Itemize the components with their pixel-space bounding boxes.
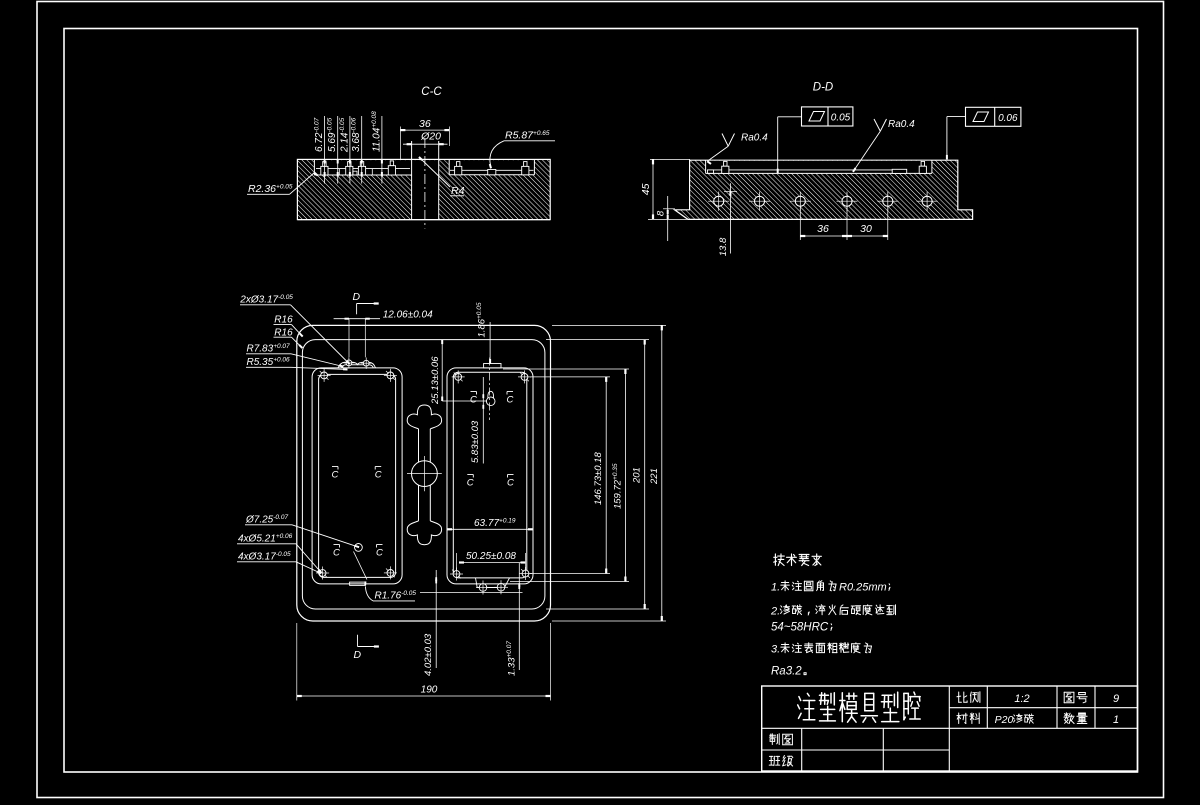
C-C hole centerline [424,138,426,229]
D-D dimension 13.8 [729,183,731,253]
svg-text:C: C [507,395,514,406]
dimension 25.13 [441,340,443,401]
svg-text:Ra3.2: Ra3.2 [771,666,802,678]
dimension 4.02 [435,570,437,668]
svg-text:45: 45 [640,183,652,195]
right cavity corner screw holes [455,374,462,381]
D-D ejector pin right [921,161,924,166]
svg-text:25.13±0.06: 25.13±0.06 [430,356,441,405]
svg-text:C-C: C-C [421,86,442,98]
title block outer frame [762,686,1138,771]
C-C pocket step lines [338,169,340,175]
right cavity inner contour [453,372,527,578]
svg-text:D: D [353,291,361,303]
svg-text:1: 1 [1113,714,1119,726]
svg-text:0.05: 0.05 [831,113,851,124]
dimension 63.77 cavity width [447,528,533,530]
svg-text:0.06: 0.06 [998,113,1018,124]
runner bottom clover [407,521,441,545]
D-D dimensions 36 and 30 hole spacing [800,235,888,237]
C-C dimension 36 across hole [400,129,449,131]
svg-text:C: C [376,548,383,559]
svg-text:P20: P20 [995,714,1014,726]
C-C dimension diameter 20 [403,143,448,145]
svg-text:4.02±0.03: 4.02±0.03 [423,633,434,676]
left cavity outer contour [312,368,402,584]
runner center sprue circle [412,461,438,487]
dimension 146.73 [605,377,607,574]
title block label material [957,713,967,724]
title block label drawing number [1064,692,1074,703]
left cavity inner contour [319,374,396,577]
C-C ejector pin 6 [524,162,527,167]
gate hole left of 2x dia 3.17 [346,360,352,366]
C-C sub collar between pins [353,171,357,175]
C-C ejector pin 3 [360,162,363,167]
C-C center hole bore [412,160,439,219]
dimension 12.06 gate holes [334,318,380,320]
C-C right pocket cavity [449,160,534,175]
bell centerline [489,358,491,421]
section C marks left cavity [332,466,338,468]
dimension 201 [644,340,646,609]
left cavity bottom tab [350,582,366,585]
dimension 1.86 tab height [489,322,491,362]
C-C left pocket cavity [314,160,411,175]
svg-text:12.06±0.04: 12.06±0.04 [383,310,433,321]
svg-text:D-D: D-D [813,82,833,94]
dimension 190 overall width [297,695,551,697]
D-D hatched block with flange [675,160,973,219]
svg-text:C: C [332,470,339,481]
svg-text:50.25±0.08: 50.25±0.08 [466,551,516,562]
svg-text:9: 9 [1113,693,1119,705]
svg-text:190: 190 [421,685,438,696]
svg-text:13.8: 13.8 [718,237,729,256]
svg-text:D: D [354,649,362,661]
section line jog segment [354,552,367,580]
sub-gate bell in right cavity [486,397,495,406]
svg-text:R16: R16 [274,315,293,326]
dimension 1.33 [518,563,520,670]
svg-text:R4: R4 [451,185,465,197]
svg-text:8: 8 [656,210,667,216]
dimension 50.25 [459,562,526,564]
title text injection mold cavity [798,693,815,719]
svg-text:C: C [470,395,477,406]
svg-text:C: C [507,478,514,489]
D-D surface finish Ra0.4 callout right [874,119,880,131]
C-C center boss R5.87 seat [488,170,496,175]
section D mark bottom [357,635,359,647]
dimension 221 [661,325,663,621]
svg-text:30: 30 [860,223,872,235]
svg-text:5.83±0.03: 5.83±0.03 [470,420,481,463]
D-D flatness tolerance frame 0.05 [802,107,853,126]
svg-text:C: C [467,478,474,489]
right cavity bottom ejector notch [476,578,510,588]
runner stem lower [418,485,420,521]
D-D flatness tolerance frame 0.06 [966,107,1021,126]
left cavity corner screw holes [321,372,328,379]
svg-text:Ra0.4: Ra0.4 [888,119,915,130]
left cavity top gate notch profile [338,362,376,368]
svg-text:C: C [333,548,340,559]
plan view mold plate outer contour [297,325,551,621]
title block vertical dividers [948,686,950,771]
svg-text:54~58HRC: 54~58HRC [771,622,829,634]
dimension 5.83 [482,377,484,464]
dimension 159.72 [624,369,626,582]
svg-text:1.: 1. [771,582,780,594]
right cavity outer contour [447,368,533,584]
gate hole right of 2x dia 3.17 [363,360,369,366]
runner top clover [407,405,441,429]
C-C ejector pin 1 [323,162,326,167]
svg-text:36: 36 [817,223,829,235]
runner stem upper [418,429,420,462]
plan view mold plate inner step contour [302,340,545,609]
D-D screw holes with center marks [714,196,724,206]
right cavity top tab [484,364,501,368]
C-C ejector pin 2 [348,162,351,167]
section C marks right cavity [471,391,477,393]
technical requirements heading [774,554,785,566]
title block label quantity [1064,713,1074,724]
title block label class [769,756,780,765]
svg-text:R0.25mm: R0.25mm [839,582,887,594]
D-D small step left [708,170,714,174]
D-D ejector pin left [724,161,727,166]
notch ejector hole right [497,584,505,592]
svg-text:146.73±0.18: 146.73±0.18 [593,452,604,505]
C-C hatched block [297,159,550,219]
svg-text:Ø20: Ø20 [420,131,441,143]
svg-text:Ra0.4: Ra0.4 [741,133,768,144]
svg-text:C: C [375,470,382,481]
C-C ejector pin 4 [390,161,393,166]
C-C ejector pin 5 [457,162,460,167]
title block label drafter [769,734,779,745]
notch ejector hole left [479,584,487,592]
ejector hole dia 7.25 in left cavity [355,544,363,552]
D-D dimension 8 flange height [667,196,669,241]
svg-text:201: 201 [632,467,643,484]
svg-text:36: 36 [419,118,431,130]
D-D dimension 45 overall height [652,159,654,219]
svg-text:1:2: 1:2 [1014,693,1029,705]
svg-text:3.: 3. [771,644,780,656]
D-D pocket cavity [706,161,932,174]
C-C pin height dimensions group [324,116,326,184]
title block label scale [957,692,967,702]
D-D surface finish Ra0.4 callout left [722,134,728,147]
svg-text:221: 221 [649,468,660,485]
D-D center boss step [892,169,907,173]
svg-text:2.: 2. [770,606,780,618]
title block horizontal dividers [949,707,1137,709]
